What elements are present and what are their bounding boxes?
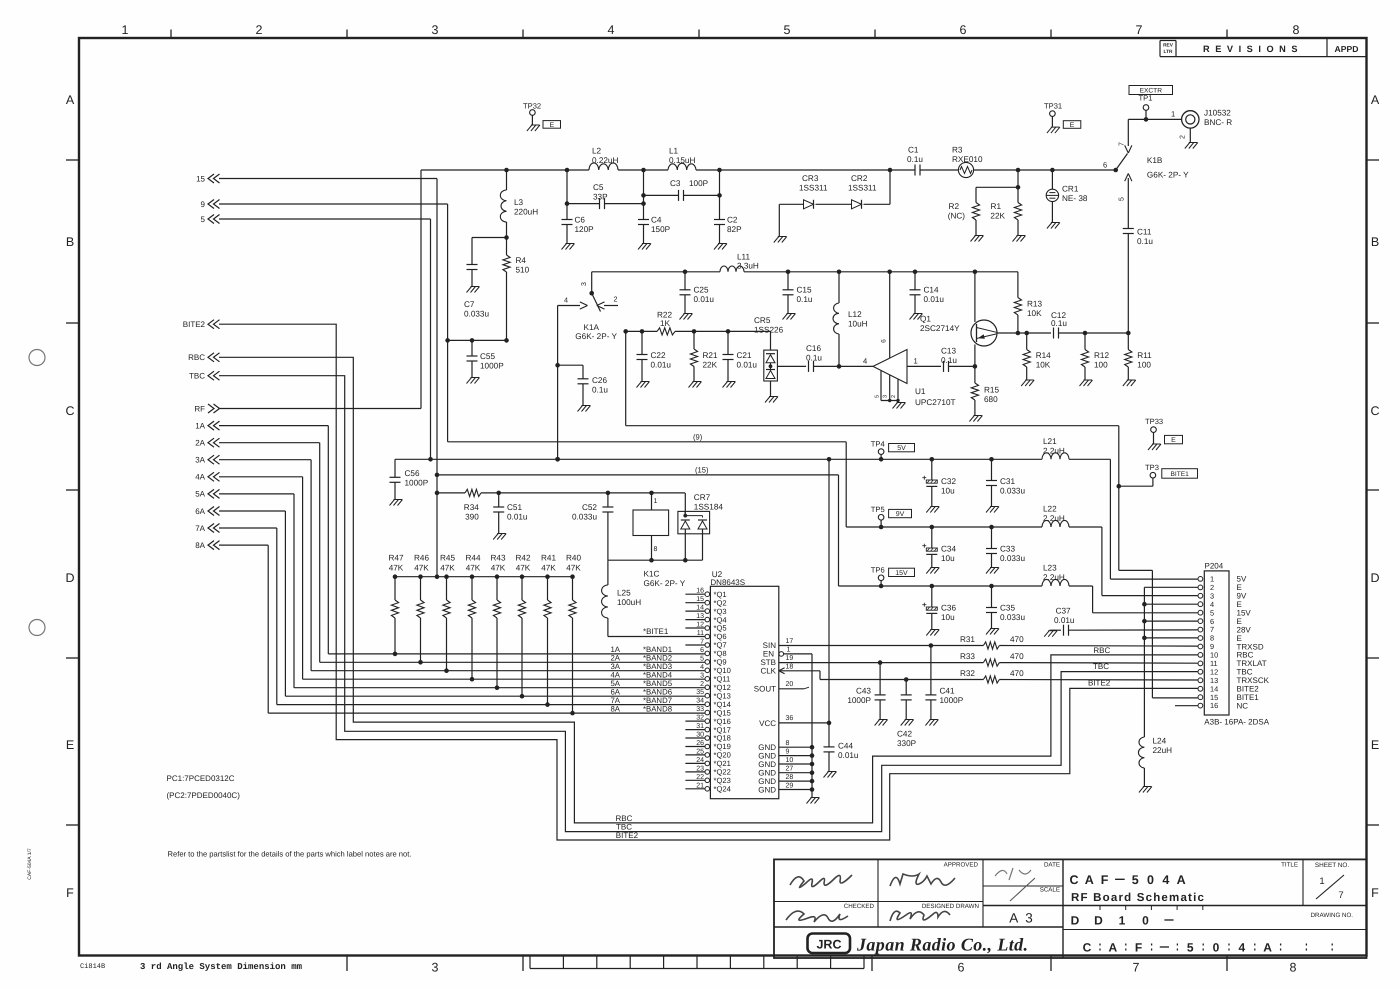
svg-text:0.01u: 0.01u — [507, 513, 528, 522]
svg-text:11: 11 — [697, 630, 704, 637]
svg-text:C32: C32 — [941, 477, 956, 486]
svg-text:SOUT: SOUT — [754, 685, 776, 694]
svg-text:TP5: TP5 — [871, 505, 885, 514]
svg-text:G6K- 2P- Y: G6K- 2P- Y — [1147, 171, 1189, 180]
svg-text:RBC: RBC — [1093, 646, 1110, 655]
svg-text:82P: 82P — [727, 225, 742, 234]
svg-text:1SS311: 1SS311 — [799, 184, 828, 193]
svg-text:1: 1 — [787, 647, 791, 654]
svg-text:2.2uH: 2.2uH — [1043, 573, 1065, 582]
svg-text:31: 31 — [696, 723, 704, 730]
svg-text:5: 5 — [201, 215, 206, 224]
svg-text:C25: C25 — [694, 286, 709, 295]
svg-text:R44: R44 — [465, 554, 480, 563]
svg-text:D: D — [1370, 571, 1379, 585]
svg-text:APPROVED: APPROVED — [944, 862, 979, 869]
svg-text:2: 2 — [256, 23, 263, 37]
svg-text:20: 20 — [786, 681, 794, 688]
svg-text:3: 3 — [432, 23, 439, 37]
svg-text:4: 4 — [1162, 873, 1169, 887]
svg-text:1: 1 — [654, 498, 658, 505]
svg-text:R11: R11 — [1137, 351, 1152, 360]
svg-text:1: 1 — [1171, 110, 1175, 119]
svg-text:36: 36 — [786, 715, 794, 722]
svg-text:F: F — [1135, 941, 1142, 955]
svg-text:10: 10 — [786, 757, 794, 764]
svg-text:100: 100 — [1094, 361, 1108, 370]
svg-text:5: 5 — [1187, 941, 1194, 955]
svg-text:8A: 8A — [610, 704, 620, 713]
svg-text:A: A — [1108, 941, 1117, 955]
svg-text:Ci814B: Ci814B — [80, 962, 105, 971]
svg-text:C7: C7 — [464, 300, 475, 309]
svg-text:0: 0 — [1142, 914, 1149, 928]
svg-text:R3: R3 — [952, 146, 963, 155]
svg-text:R45: R45 — [440, 554, 455, 563]
svg-text:10u: 10u — [941, 554, 955, 563]
svg-text:C21: C21 — [737, 351, 752, 360]
svg-text:F: F — [1371, 886, 1379, 900]
svg-text:C52: C52 — [582, 503, 597, 512]
svg-text:0.033u: 0.033u — [572, 513, 597, 522]
svg-text:K1A: K1A — [584, 323, 600, 332]
svg-text:3: 3 — [883, 395, 889, 398]
svg-text:REV: REV — [1163, 42, 1174, 48]
svg-text:R13: R13 — [1027, 300, 1042, 309]
svg-text:1A: 1A — [195, 421, 205, 430]
svg-text:NC: NC — [1237, 701, 1249, 710]
svg-text:0.033u: 0.033u — [1000, 487, 1025, 496]
svg-text:UPC2710T: UPC2710T — [915, 398, 956, 407]
svg-text:－: － — [1163, 914, 1175, 928]
svg-text:RF: RF — [194, 404, 205, 413]
svg-text:R40: R40 — [566, 554, 581, 563]
svg-text:CR3: CR3 — [802, 174, 819, 183]
svg-text:47K: 47K — [389, 564, 404, 573]
svg-text:3: 3 — [581, 282, 588, 286]
svg-text:D: D — [1071, 914, 1080, 928]
svg-text:3: 3 — [432, 961, 439, 975]
svg-text:0.033u: 0.033u — [1000, 554, 1025, 563]
svg-text:L2: L2 — [592, 147, 602, 156]
svg-text:15: 15 — [696, 596, 704, 603]
svg-text:32: 32 — [696, 715, 704, 722]
svg-text:7A: 7A — [195, 524, 205, 533]
svg-text:4: 4 — [1238, 941, 1245, 955]
svg-text:C36: C36 — [941, 604, 956, 613]
svg-text:C: C — [1069, 873, 1078, 887]
svg-text:C15: C15 — [797, 286, 812, 295]
svg-text:22uH: 22uH — [1153, 746, 1173, 755]
svg-text:10u: 10u — [941, 487, 955, 496]
svg-text:26: 26 — [696, 740, 704, 747]
svg-text:33P: 33P — [593, 193, 608, 202]
svg-text:TP6: TP6 — [871, 566, 885, 575]
svg-text:16: 16 — [1210, 701, 1218, 710]
svg-text:R1: R1 — [991, 202, 1002, 211]
svg-text:10K: 10K — [1027, 309, 1042, 318]
svg-text:C44: C44 — [838, 742, 853, 751]
svg-text:A: A — [1371, 93, 1380, 107]
svg-text:D: D — [65, 571, 74, 585]
svg-text:C31: C31 — [1000, 477, 1015, 486]
svg-text:*Q24: *Q24 — [714, 785, 731, 794]
svg-text:BITE2: BITE2 — [616, 831, 639, 840]
svg-text:120P: 120P — [575, 225, 595, 234]
svg-text:0.22uH: 0.22uH — [592, 156, 618, 165]
svg-text:330P: 330P — [897, 739, 917, 748]
svg-text:(9): (9) — [693, 433, 703, 442]
svg-text:C55: C55 — [480, 352, 495, 361]
svg-text:5: 5 — [875, 395, 881, 398]
svg-text:R21: R21 — [703, 351, 718, 360]
svg-text:10K: 10K — [1036, 361, 1051, 370]
svg-text:0.1u: 0.1u — [941, 356, 957, 365]
svg-text:CAF-504A 1/7: CAF-504A 1/7 — [27, 848, 33, 880]
svg-text:A: A — [1263, 941, 1272, 955]
svg-text:R47: R47 — [388, 554, 403, 563]
svg-text:L25: L25 — [617, 589, 631, 598]
svg-text:29: 29 — [786, 782, 794, 789]
svg-text:DESIGNED DRAWN: DESIGNED DRAWN — [922, 903, 979, 910]
svg-text:28: 28 — [786, 774, 794, 781]
svg-text:L1: L1 — [669, 147, 679, 156]
svg-text:1: 1 — [914, 357, 918, 366]
svg-text:B: B — [66, 235, 74, 249]
svg-text:PC1:7PCED0312C: PC1:7PCED0312C — [167, 774, 235, 783]
svg-text:6A: 6A — [195, 507, 205, 516]
svg-text:14: 14 — [696, 605, 704, 612]
svg-text:C5: C5 — [593, 183, 604, 192]
svg-text:R34: R34 — [464, 503, 479, 512]
svg-text:21: 21 — [696, 782, 704, 789]
svg-text:0.01u: 0.01u — [924, 295, 945, 304]
svg-text:C16: C16 — [806, 344, 821, 353]
svg-text:DATE: DATE — [1044, 862, 1060, 869]
svg-text:L3: L3 — [514, 198, 524, 207]
svg-text:R4: R4 — [516, 256, 527, 265]
svg-text:DN8643S: DN8643S — [710, 578, 745, 587]
svg-text:RXE010: RXE010 — [952, 155, 983, 164]
svg-text:K1B: K1B — [1147, 156, 1163, 165]
svg-text:C37: C37 — [1056, 607, 1071, 616]
svg-text:GND: GND — [758, 760, 776, 769]
svg-text:R15: R15 — [984, 386, 999, 395]
svg-text:10u: 10u — [941, 613, 955, 622]
svg-text:E: E — [1171, 437, 1176, 444]
svg-text:22K: 22K — [990, 212, 1005, 221]
svg-text:TP33: TP33 — [1145, 417, 1163, 426]
svg-text:EXCTR: EXCTR — [1140, 88, 1163, 95]
svg-text:NE- 38: NE- 38 — [1062, 194, 1088, 203]
svg-text:1K: 1K — [660, 319, 671, 328]
svg-text:1: 1 — [1319, 876, 1324, 887]
svg-text:0.01u: 0.01u — [1054, 616, 1075, 625]
svg-text:7: 7 — [1136, 23, 1143, 37]
svg-text:0.1u: 0.1u — [1137, 237, 1153, 246]
svg-text:Q1: Q1 — [920, 315, 931, 324]
svg-text:P204: P204 — [1205, 562, 1224, 571]
svg-text:J10532: J10532 — [1204, 109, 1231, 118]
svg-text:－: － — [1114, 873, 1127, 887]
svg-text:R32: R32 — [960, 669, 975, 678]
svg-text:A: A — [1085, 873, 1094, 887]
svg-text:4: 4 — [700, 664, 704, 671]
svg-text:C: C — [1370, 404, 1379, 418]
svg-text:L24: L24 — [1153, 737, 1167, 746]
svg-text:CR7: CR7 — [694, 493, 711, 502]
svg-text:7: 7 — [1119, 142, 1126, 146]
svg-text:4A: 4A — [195, 473, 205, 482]
svg-text:4: 4 — [863, 357, 867, 366]
svg-text:2SC2714Y: 2SC2714Y — [920, 324, 960, 333]
svg-text:CR2: CR2 — [851, 174, 868, 183]
svg-text:22: 22 — [696, 774, 704, 781]
svg-text:30: 30 — [696, 732, 704, 739]
svg-text:CLK: CLK — [760, 666, 776, 675]
svg-text:(PC2:7PDED0040C): (PC2:7PDED0040C) — [167, 791, 241, 800]
svg-text:8: 8 — [786, 740, 790, 747]
svg-text:13: 13 — [696, 613, 704, 620]
svg-text:35: 35 — [696, 689, 704, 696]
svg-text:8: 8 — [1293, 23, 1300, 37]
svg-text:(NC): (NC) — [948, 212, 966, 221]
svg-text:33: 33 — [696, 706, 704, 713]
svg-text:E: E — [1371, 738, 1379, 752]
svg-text:47K: 47K — [541, 564, 556, 573]
svg-text:220uH: 220uH — [514, 208, 538, 217]
svg-text:5V: 5V — [897, 445, 906, 452]
svg-text:1000P: 1000P — [940, 696, 964, 705]
svg-text:R31: R31 — [960, 635, 975, 644]
svg-text:L11: L11 — [737, 253, 750, 262]
svg-text:R12: R12 — [1094, 351, 1109, 360]
svg-text:0.1u: 0.1u — [592, 386, 608, 395]
svg-text:2: 2 — [700, 681, 704, 688]
svg-text:9V: 9V — [896, 511, 905, 518]
svg-text:DRAWING NO.: DRAWING NO. — [1311, 912, 1354, 919]
svg-text:G6K- 2P- Y: G6K- 2P- Y — [644, 579, 686, 588]
svg-text:470: 470 — [1010, 669, 1024, 678]
svg-text:E: E — [549, 122, 554, 129]
svg-text:BITE2: BITE2 — [1088, 678, 1111, 687]
svg-text:0: 0 — [1213, 941, 1220, 955]
svg-text:0.1u: 0.1u — [1051, 319, 1067, 328]
svg-text:C1: C1 — [908, 146, 919, 155]
svg-text:GND: GND — [758, 785, 776, 794]
svg-text:0.01u: 0.01u — [651, 361, 672, 370]
svg-text:A3B- 16PA- 2DSA: A3B- 16PA- 2DSA — [1204, 718, 1269, 727]
svg-text:1000P: 1000P — [847, 696, 871, 705]
svg-text:L21: L21 — [1043, 437, 1057, 446]
svg-text:3A: 3A — [195, 456, 205, 465]
svg-text:34: 34 — [696, 698, 704, 705]
svg-text:0.1u: 0.1u — [806, 354, 822, 363]
svg-text:C: C — [65, 404, 74, 418]
svg-text:2.2uH: 2.2uH — [1043, 514, 1065, 523]
svg-text:0.033u: 0.033u — [464, 310, 489, 319]
svg-text:TP31: TP31 — [1044, 102, 1062, 111]
svg-text:－: － — [1158, 941, 1170, 955]
svg-text:(15): (15) — [695, 466, 709, 475]
svg-text:47K: 47K — [440, 564, 455, 573]
svg-text:25: 25 — [696, 748, 704, 755]
svg-text:R43: R43 — [490, 554, 505, 563]
svg-text:24: 24 — [696, 757, 704, 764]
svg-text:C4: C4 — [651, 216, 662, 225]
svg-text:C22: C22 — [651, 351, 666, 360]
svg-text:U1: U1 — [915, 387, 926, 396]
svg-text:6: 6 — [960, 23, 967, 37]
svg-text:680: 680 — [984, 395, 998, 404]
svg-text:BITE2: BITE2 — [183, 320, 206, 329]
svg-text:APPD: APPD — [1335, 44, 1359, 54]
svg-text:510: 510 — [516, 266, 530, 275]
svg-text:3.3uH: 3.3uH — [737, 262, 759, 271]
svg-text:C3: C3 — [670, 179, 681, 188]
svg-text:0.01u: 0.01u — [694, 295, 715, 304]
svg-text:*BAND8: *BAND8 — [643, 704, 672, 713]
svg-text:27: 27 — [786, 766, 794, 773]
svg-text:47K: 47K — [566, 564, 581, 573]
svg-text:CR5: CR5 — [754, 316, 771, 325]
svg-text:9: 9 — [201, 200, 206, 209]
svg-text:0.033u: 0.033u — [1000, 613, 1025, 622]
svg-text:C51: C51 — [507, 503, 522, 512]
svg-text:R14: R14 — [1036, 351, 1051, 360]
svg-text:RBC: RBC — [616, 814, 633, 823]
svg-text:VCC: VCC — [759, 719, 776, 728]
svg-text:D: D — [1094, 914, 1103, 928]
svg-text:6: 6 — [881, 339, 888, 343]
svg-text:B: B — [1371, 235, 1379, 249]
svg-text:TBC: TBC — [189, 372, 205, 381]
svg-text:R2: R2 — [949, 202, 960, 211]
svg-text:15: 15 — [196, 174, 205, 183]
svg-text:16: 16 — [696, 588, 704, 595]
svg-text:C43: C43 — [856, 687, 871, 696]
svg-text:L23: L23 — [1043, 564, 1057, 573]
svg-text:RF Board Schematic: RF Board Schematic — [1071, 892, 1205, 904]
svg-text:F: F — [66, 886, 74, 900]
svg-text:K1C: K1C — [644, 570, 660, 579]
svg-text:6: 6 — [700, 647, 704, 654]
svg-text:C6: C6 — [575, 216, 586, 225]
svg-text:R41: R41 — [541, 554, 556, 563]
svg-text:C: C — [1083, 941, 1092, 955]
svg-text:2: 2 — [1180, 135, 1187, 139]
svg-text:47K: 47K — [414, 564, 429, 573]
svg-text:E: E — [1070, 122, 1075, 129]
svg-text:SHEET NO.: SHEET NO. — [1315, 862, 1350, 869]
svg-text:JRC: JRC — [816, 938, 841, 952]
svg-text:47K: 47K — [516, 564, 531, 573]
svg-text:8A: 8A — [195, 541, 205, 550]
svg-text:0: 0 — [1147, 873, 1154, 887]
svg-text:1SS184: 1SS184 — [694, 502, 724, 511]
svg-text:G6K- 2P- Y: G6K- 2P- Y — [575, 332, 617, 341]
svg-text:Japan Radio Co., Ltd.: Japan Radio Co., Ltd. — [856, 935, 1028, 955]
svg-text:CR1: CR1 — [1062, 185, 1079, 194]
svg-text:2: 2 — [891, 395, 897, 398]
svg-text:TP3: TP3 — [1145, 463, 1159, 472]
svg-text:5A: 5A — [195, 490, 205, 499]
svg-text:100: 100 — [1137, 361, 1151, 370]
svg-text:0.15uH: 0.15uH — [669, 156, 695, 165]
svg-text:C35: C35 — [1000, 604, 1015, 613]
svg-text:TITLE: TITLE — [1281, 862, 1298, 869]
svg-text:C42: C42 — [897, 730, 912, 739]
svg-text:4: 4 — [564, 296, 568, 305]
svg-text:C14: C14 — [924, 286, 939, 295]
svg-text:3: 3 — [700, 672, 704, 679]
svg-text:1SS311: 1SS311 — [848, 184, 877, 193]
svg-text:1: 1 — [1119, 914, 1126, 928]
svg-text:TBC: TBC — [1093, 662, 1109, 671]
svg-text:390: 390 — [465, 513, 479, 522]
svg-text:R E V I S I O N S: R E V I S I O N S — [1203, 44, 1299, 54]
svg-text:C2: C2 — [727, 216, 738, 225]
svg-text:CHECKED: CHECKED — [844, 903, 875, 910]
svg-text:8: 8 — [1290, 961, 1297, 975]
svg-text:BNC- R: BNC- R — [1204, 118, 1232, 127]
svg-text:100P: 100P — [689, 179, 709, 188]
svg-text:R46: R46 — [414, 554, 429, 563]
svg-text:0.01u: 0.01u — [737, 361, 758, 370]
svg-text:470: 470 — [1010, 652, 1024, 661]
svg-text:5: 5 — [1132, 873, 1139, 887]
svg-text:A 3: A 3 — [1009, 911, 1035, 926]
svg-text:LTR: LTR — [1164, 49, 1174, 55]
svg-text:0.1u: 0.1u — [797, 295, 813, 304]
svg-text:R42: R42 — [515, 554, 530, 563]
svg-text:A: A — [1177, 873, 1186, 887]
svg-text:9: 9 — [786, 748, 790, 755]
svg-text:R33: R33 — [960, 652, 975, 661]
svg-text:0.1u: 0.1u — [907, 155, 923, 164]
svg-text:6: 6 — [958, 961, 965, 975]
svg-text:L12: L12 — [848, 310, 862, 319]
svg-text:C11: C11 — [1137, 228, 1152, 237]
svg-text:Refer to the partslist for the: Refer to the partslist for the details o… — [168, 850, 412, 859]
svg-text:6: 6 — [1103, 161, 1107, 170]
svg-text:47K: 47K — [466, 564, 481, 573]
svg-text:C34: C34 — [941, 545, 956, 554]
svg-text:2: 2 — [614, 295, 618, 304]
svg-text:7: 7 — [1338, 890, 1343, 901]
svg-text:C26: C26 — [592, 376, 607, 385]
svg-text:10uH: 10uH — [848, 320, 868, 329]
svg-text:4: 4 — [608, 23, 615, 37]
svg-text:C33: C33 — [1000, 545, 1015, 554]
svg-text:1000P: 1000P — [405, 479, 429, 488]
svg-text:5: 5 — [1119, 197, 1126, 201]
svg-text:1: 1 — [122, 23, 129, 37]
svg-text:L22: L22 — [1043, 505, 1057, 514]
svg-text:8: 8 — [654, 546, 658, 553]
svg-text:5: 5 — [784, 23, 791, 37]
svg-text:17: 17 — [786, 638, 794, 645]
svg-text:23: 23 — [696, 765, 704, 772]
svg-text:F: F — [1101, 873, 1109, 887]
svg-text:RBC: RBC — [188, 353, 205, 362]
svg-text:C41: C41 — [940, 687, 955, 696]
svg-text:18: 18 — [786, 663, 794, 670]
svg-text:C13: C13 — [941, 347, 956, 356]
svg-text:2A: 2A — [195, 439, 205, 448]
svg-text:47K: 47K — [491, 564, 506, 573]
svg-text:15V: 15V — [895, 570, 908, 577]
